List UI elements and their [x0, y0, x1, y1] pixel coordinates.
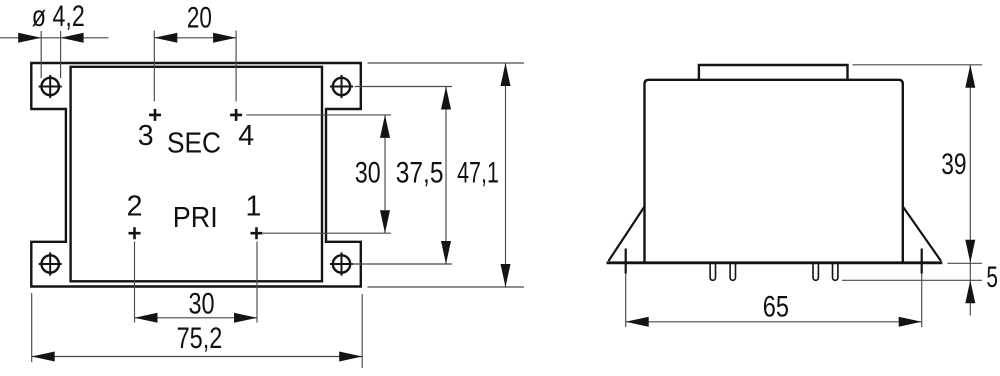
svg-text:39: 39: [941, 148, 966, 181]
svg-text:ø 4,2: ø 4,2: [32, 0, 85, 33]
svg-text:1: 1: [246, 191, 262, 223]
svg-text:2: 2: [127, 191, 143, 223]
svg-text:4: 4: [238, 120, 254, 152]
svg-text:47,1: 47,1: [457, 156, 499, 189]
svg-text:20: 20: [187, 2, 212, 35]
svg-text:30: 30: [189, 288, 215, 321]
svg-text:75,2: 75,2: [177, 322, 223, 355]
svg-text:PRI: PRI: [173, 202, 218, 234]
svg-text:65: 65: [763, 291, 789, 324]
svg-text:SEC: SEC: [167, 127, 221, 159]
svg-text:5: 5: [986, 261, 998, 294]
svg-text:30: 30: [355, 156, 381, 189]
svg-text:37,5: 37,5: [396, 156, 444, 189]
svg-text:3: 3: [138, 120, 154, 152]
